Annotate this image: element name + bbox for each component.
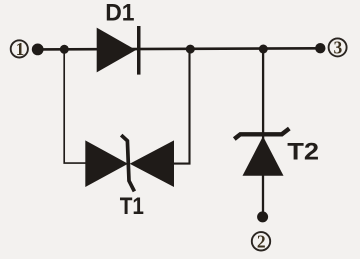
diode D1 cathode bar bbox=[137, 26, 141, 75]
svg-text:2: 2 bbox=[257, 231, 266, 251]
T2 anode wire down bbox=[262, 49, 264, 140]
wire from T1 right up to top wire bbox=[174, 49, 190, 164]
thyristor T2 cathode bar bbox=[234, 129, 289, 140]
svg-text:T1: T1 bbox=[120, 193, 144, 220]
triac T1 left triangle bbox=[85, 140, 128, 187]
terminal circle 2 bbox=[252, 232, 270, 250]
T2 cathode wire down bbox=[262, 175, 264, 212]
node 2 dot bbox=[257, 211, 268, 222]
triac T1 gate line bbox=[121, 135, 134, 191]
svg-text:T2: T2 bbox=[287, 138, 319, 165]
thyristor T2 triangle bbox=[243, 136, 284, 176]
junction B dot bbox=[186, 45, 195, 54]
wire from junction A down to T1 bbox=[64, 49, 86, 163]
terminal circle 1 bbox=[11, 40, 28, 57]
diode D1 triangle (anode) bbox=[97, 28, 136, 73]
node 3 dot bbox=[315, 43, 325, 53]
triac T1 right triangle bbox=[130, 140, 174, 187]
node 1 dot bbox=[32, 44, 44, 56]
svg-text:1: 1 bbox=[16, 39, 25, 59]
top wire (node 1 to node 3) bbox=[37, 48, 320, 49]
svg-text:3: 3 bbox=[334, 38, 343, 58]
junction C dot bbox=[259, 45, 268, 54]
svg-text:D1: D1 bbox=[105, 0, 134, 27]
terminal circle 3 bbox=[329, 38, 347, 56]
junction A dot bbox=[60, 45, 69, 54]
